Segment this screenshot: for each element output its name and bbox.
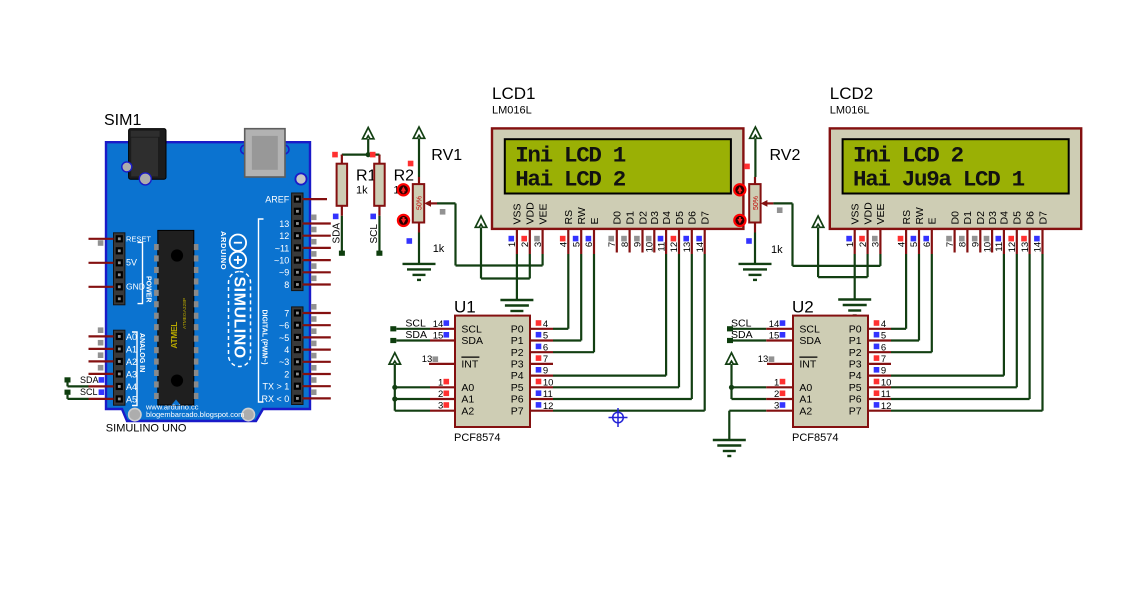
svg-text:P4: P4 xyxy=(849,370,862,382)
U2 wire P1 to LCD pin 5 xyxy=(891,339,919,341)
svg-text:D3: D3 xyxy=(987,211,999,225)
U2 P7 pin stub xyxy=(868,410,891,412)
svg-text:P6: P6 xyxy=(511,394,524,406)
pin stub A4 xyxy=(89,385,114,387)
svg-text:RS: RS xyxy=(901,210,913,225)
terminal SCL xyxy=(65,390,71,395)
svg-text:4: 4 xyxy=(896,242,907,247)
U1 pin 4 square xyxy=(536,320,542,326)
digital header upper (AREF,13-8) xyxy=(292,193,303,291)
svg-text:RV2: RV2 xyxy=(770,147,801,164)
potentiometer RV2 xyxy=(754,177,756,184)
svg-text:VDD: VDD xyxy=(525,202,537,225)
wire LCD2 VSS to ground xyxy=(854,254,856,300)
svg-text:LM016L: LM016L xyxy=(492,105,532,117)
svg-text:P0: P0 xyxy=(511,323,524,335)
U1 P6 pin stub xyxy=(530,398,553,400)
U2 P4 pin stub xyxy=(868,375,891,377)
state square RV1 top xyxy=(408,161,414,167)
state square A4 xyxy=(99,377,105,383)
svg-text:U2: U2 xyxy=(792,298,814,317)
arduino right pin state squares xyxy=(311,215,317,221)
U1 wire P0 to LCD pin 4 xyxy=(553,328,568,330)
svg-text:13: 13 xyxy=(279,219,289,229)
svg-text:P6: P6 xyxy=(849,394,862,406)
U1 wire P7 to LCD pin 14 xyxy=(553,410,705,412)
svg-text:10: 10 xyxy=(881,377,892,388)
svg-text:5: 5 xyxy=(909,242,920,247)
svg-text:P5: P5 xyxy=(849,382,862,394)
svg-text:14: 14 xyxy=(695,242,706,253)
U2 wire P6 to LCD pin 13 xyxy=(891,398,1030,400)
LCD1 pin state squares xyxy=(509,236,515,242)
svg-text:14: 14 xyxy=(769,319,780,330)
LCD1 screen xyxy=(505,139,731,193)
svg-text:A1: A1 xyxy=(799,394,812,406)
svg-text:E: E xyxy=(589,217,601,224)
U1 A0 wire xyxy=(395,386,430,388)
svg-text:P0: P0 xyxy=(849,323,862,335)
U1 wire P5 to LCD pin 12 xyxy=(553,386,679,388)
U2 A0 wire xyxy=(732,386,767,388)
svg-text:4: 4 xyxy=(559,242,570,247)
svg-text:8: 8 xyxy=(958,242,969,247)
U2 INT stub xyxy=(767,363,793,365)
svg-text:P3: P3 xyxy=(849,359,862,371)
vcc power arrow LCD2 VDD xyxy=(812,216,823,227)
svg-text:12: 12 xyxy=(543,401,554,412)
wire LCD1 VSS to ground xyxy=(516,254,518,300)
svg-text:1k: 1k xyxy=(771,244,783,256)
svg-text:2: 2 xyxy=(520,242,531,247)
svg-text:13: 13 xyxy=(422,354,433,365)
ground RV1 xyxy=(403,264,436,280)
U1 P2 pin stub xyxy=(530,351,553,353)
svg-text:D2: D2 xyxy=(637,211,649,225)
vcc power arrow RV1 xyxy=(413,127,424,138)
svg-text:6: 6 xyxy=(881,342,886,353)
LCD LCD2 LM016L body xyxy=(830,128,1081,229)
analog header (A0-A5) xyxy=(114,330,125,405)
svg-text:SDA: SDA xyxy=(405,329,427,341)
svg-text:3: 3 xyxy=(871,242,882,247)
reset pin state square xyxy=(98,240,104,246)
vcc power arrow RV2 xyxy=(750,127,761,138)
svg-text:RW: RW xyxy=(576,207,588,224)
state square R1 top xyxy=(332,152,338,158)
svg-text:A0: A0 xyxy=(461,382,474,394)
svg-text:VSS: VSS xyxy=(512,203,524,224)
svg-text:LCD2: LCD2 xyxy=(830,84,873,103)
U1 pin 2 square xyxy=(444,391,450,397)
svg-text:D6: D6 xyxy=(687,211,699,225)
svg-text:RV1: RV1 xyxy=(431,147,462,164)
svg-text:D4: D4 xyxy=(999,211,1011,225)
svg-text:7: 7 xyxy=(881,354,886,365)
svg-text:A2: A2 xyxy=(461,405,474,417)
svg-text:15: 15 xyxy=(769,331,780,342)
U2 wire P0 to LCD pin 4 xyxy=(891,328,906,330)
svg-text:SDA: SDA xyxy=(461,335,483,347)
svg-text:10: 10 xyxy=(645,242,656,253)
U2 SCL terminal and wire xyxy=(727,326,733,331)
U1 SDA terminal and wire xyxy=(390,338,396,343)
svg-text:1: 1 xyxy=(507,242,518,247)
svg-text:D6: D6 xyxy=(1024,211,1036,225)
svg-text:VEE: VEE xyxy=(537,203,549,224)
svg-text:AREF: AREF xyxy=(265,195,290,205)
U2 pin 6 square xyxy=(874,344,880,350)
svg-text:5: 5 xyxy=(543,331,548,342)
svg-text:RS: RS xyxy=(563,210,575,225)
svg-text:PCF8574: PCF8574 xyxy=(454,432,500,444)
terminal SDA xyxy=(65,377,71,382)
svg-text:A2: A2 xyxy=(799,405,812,417)
U2 pin 9 square xyxy=(874,367,880,373)
svg-text:RX < 0: RX < 0 xyxy=(262,394,290,404)
U2 pin 5 square xyxy=(874,332,880,338)
U1 junction A0 xyxy=(392,385,397,390)
svg-text:7: 7 xyxy=(543,354,548,365)
svg-text:6: 6 xyxy=(584,242,595,247)
svg-text:LCD1: LCD1 xyxy=(492,84,535,103)
wire R2 top to vcc xyxy=(368,154,379,156)
svg-text:Ini LCD 2: Ini LCD 2 xyxy=(853,142,964,168)
svg-text:INT: INT xyxy=(799,359,817,371)
svg-text:3: 3 xyxy=(533,242,544,247)
svg-text:D3: D3 xyxy=(649,211,661,225)
svg-text:A2: A2 xyxy=(126,357,137,367)
svg-text:SCL: SCL xyxy=(80,387,98,397)
pcf8574 U1 body xyxy=(455,316,530,427)
svg-text:Hai LCD 2: Hai LCD 2 xyxy=(515,166,626,192)
U1 wire P2 to LCD pin 6 xyxy=(553,351,594,353)
svg-text:VEE: VEE xyxy=(875,203,887,224)
U2 P3 pin stub xyxy=(868,363,891,365)
svg-text:SDA: SDA xyxy=(799,335,821,347)
state square RV2 wiper xyxy=(777,207,783,213)
vcc power arrow LCD1 VDD xyxy=(475,216,486,227)
U2 pin 3 square xyxy=(780,402,786,408)
svg-text:7: 7 xyxy=(945,242,956,247)
U2 pin 12 square xyxy=(874,402,880,408)
svg-text:ANALOG IN: ANALOG IN xyxy=(138,333,145,372)
state square R1 bottom xyxy=(333,214,339,220)
svg-text:11: 11 xyxy=(994,242,1005,252)
state square R2 bottom xyxy=(370,214,376,220)
svg-text:E: E xyxy=(927,217,939,224)
U1 pin 11 square xyxy=(536,390,542,396)
analog-in bracket xyxy=(132,332,137,406)
screw bottom-left xyxy=(129,408,141,420)
wire R2 bottom to terminal xyxy=(378,216,380,252)
ground LCD2 VSS xyxy=(838,300,871,316)
digital bracket xyxy=(259,219,264,402)
svg-text:SCL: SCL xyxy=(405,317,426,329)
resistor R2 xyxy=(378,155,380,165)
svg-text:~9: ~9 xyxy=(279,268,289,278)
svg-text:9: 9 xyxy=(633,242,644,247)
svg-text:SIM1: SIM1 xyxy=(104,112,141,129)
digital header lower (7-0) xyxy=(292,307,303,405)
U1 wire P4 to LCD pin 11 xyxy=(553,375,666,377)
U1 P5 pin stub xyxy=(530,386,553,388)
svg-text:12: 12 xyxy=(279,231,289,241)
svg-text:D1: D1 xyxy=(962,211,974,225)
arduino logo xyxy=(230,235,246,269)
U1 pin 14 square xyxy=(444,320,450,326)
svg-text:5: 5 xyxy=(881,331,886,342)
svg-text:R2: R2 xyxy=(394,167,415,184)
svg-text:11: 11 xyxy=(881,389,891,400)
svg-text:2: 2 xyxy=(438,389,443,400)
svg-text:D5: D5 xyxy=(1012,211,1024,225)
svg-text:SDA: SDA xyxy=(80,375,99,385)
wire R1 bottom to terminal xyxy=(341,216,343,252)
wire SCL from A5 to terminal xyxy=(66,395,68,399)
svg-text:11: 11 xyxy=(543,389,553,400)
U1 INT stub xyxy=(429,363,455,365)
rv2 up button xyxy=(734,184,745,195)
LCD2 screen xyxy=(843,139,1069,193)
U2 pin 1 square xyxy=(780,379,786,385)
resistor R1 xyxy=(341,155,343,165)
U2 wire P5 to LCD pin 12 xyxy=(891,386,1017,388)
svg-text:~6: ~6 xyxy=(279,321,289,331)
svg-text:P7: P7 xyxy=(849,405,862,417)
svg-text:8: 8 xyxy=(620,242,631,247)
svg-text:13: 13 xyxy=(758,354,769,365)
state square A5 xyxy=(99,389,105,395)
U2 P1 pin stub xyxy=(868,339,891,341)
svg-text:15: 15 xyxy=(433,331,444,342)
svg-text:9: 9 xyxy=(971,242,982,247)
U1 pin 12 square xyxy=(536,402,542,408)
U1 junction A1 xyxy=(392,396,397,401)
svg-text:D1: D1 xyxy=(624,211,636,225)
svg-text:13: 13 xyxy=(682,242,693,253)
U2 wire P7 to LCD pin 14 xyxy=(891,410,1043,412)
svg-text:~11: ~11 xyxy=(275,243,290,253)
svg-text:4: 4 xyxy=(543,319,548,330)
usb connector xyxy=(241,145,250,154)
svg-text:6: 6 xyxy=(922,242,933,247)
svg-text:PCF8574: PCF8574 xyxy=(792,432,838,444)
wire SDA from A4 to terminal xyxy=(66,382,68,386)
U1 vcc arrow A0 A1 A2 xyxy=(389,353,400,364)
svg-text:~5: ~5 xyxy=(279,333,289,343)
svg-text:D5: D5 xyxy=(674,211,686,225)
terminal SCL at R2 xyxy=(376,251,382,256)
wire RV2 bottom to ground xyxy=(754,233,756,264)
analog pin state squares A0-A3 xyxy=(98,327,104,333)
svg-text:SDA: SDA xyxy=(331,223,342,244)
U2 P6 pin stub xyxy=(868,398,891,400)
U2 pin 10 square xyxy=(874,379,880,385)
svg-text:D2: D2 xyxy=(975,211,987,225)
svg-text:12: 12 xyxy=(881,401,892,412)
arduino board SIM1 (SIMULINO UNO) xyxy=(106,142,310,421)
svg-text:A0: A0 xyxy=(799,382,812,394)
terminal SDA at R1 xyxy=(339,251,345,256)
svg-text:P1: P1 xyxy=(849,335,862,347)
U2 A2 wire to ground xyxy=(729,410,766,412)
U2 pin 14 square xyxy=(780,320,786,326)
power bracket xyxy=(138,242,143,303)
state square RV2 bottom xyxy=(746,238,752,244)
svg-text:2: 2 xyxy=(774,389,779,400)
svg-text:10: 10 xyxy=(982,242,993,253)
svg-text:VSS: VSS xyxy=(850,203,862,224)
svg-text:~3: ~3 xyxy=(279,357,289,367)
LCD LCD1 LM016L body xyxy=(492,128,743,229)
svg-text:1: 1 xyxy=(845,242,856,247)
power header (RESET 5V GND) xyxy=(114,233,125,305)
svg-text:SIMULINO: SIMULINO xyxy=(230,277,247,359)
potentiometer RV1 xyxy=(418,177,420,184)
svg-text:POWER: POWER xyxy=(145,276,152,302)
wire LCD2 VDD xyxy=(818,276,868,278)
arduino right pin stubs xyxy=(303,199,331,398)
pin stub A5 xyxy=(89,398,114,400)
U1 SCL terminal and wire xyxy=(390,326,396,331)
U1 P7 pin stub xyxy=(530,410,553,412)
U2 wire P2 to LCD pin 6 xyxy=(891,351,932,353)
svg-text:A1: A1 xyxy=(126,344,137,354)
U1 pin 1 square xyxy=(444,379,450,385)
svg-text:VDD: VDD xyxy=(862,202,874,225)
svg-text:ATMEGA328P: ATMEGA328P xyxy=(182,298,188,329)
U2 pin 7 square xyxy=(874,355,880,361)
simulino text xyxy=(229,272,251,367)
svg-text:14: 14 xyxy=(433,319,444,330)
origin marker crosshair xyxy=(609,408,628,427)
svg-text:7: 7 xyxy=(607,242,618,247)
svg-text:50%: 50% xyxy=(416,196,423,210)
wire RV1 bottom to ground xyxy=(418,233,420,264)
svg-text:D7: D7 xyxy=(700,211,712,225)
svg-text:SCL: SCL xyxy=(369,224,380,244)
svg-text:10: 10 xyxy=(543,377,554,388)
svg-text:SCL: SCL xyxy=(461,323,482,335)
svg-text:A4: A4 xyxy=(126,382,137,392)
U2 wire P4 to LCD pin 11 xyxy=(891,375,1004,377)
svg-text:2: 2 xyxy=(858,242,869,247)
svg-text:3: 3 xyxy=(438,401,443,412)
atmega328 chip xyxy=(158,230,194,405)
svg-text:1k: 1k xyxy=(433,243,445,255)
power jack J1 xyxy=(129,129,166,180)
svg-text:DIGITAL (PWM~): DIGITAL (PWM~) xyxy=(260,310,267,365)
svg-text:5V: 5V xyxy=(126,257,137,267)
svg-text:SIMULINO UNO: SIMULINO UNO xyxy=(106,423,187,435)
svg-text:SCL: SCL xyxy=(799,323,820,335)
svg-text:P2: P2 xyxy=(511,347,524,359)
U1 A2 wire xyxy=(395,410,430,412)
state square RV2 top xyxy=(744,164,750,170)
U1 pin 15 square xyxy=(444,332,450,338)
U1 wire P6 to LCD pin 13 xyxy=(553,398,692,400)
svg-text:P1: P1 xyxy=(511,335,524,347)
U1 P0 pin stub xyxy=(530,328,553,330)
svg-text:12: 12 xyxy=(1007,242,1018,253)
svg-text:A0: A0 xyxy=(126,332,137,342)
svg-text:D4: D4 xyxy=(661,211,673,225)
svg-text:6: 6 xyxy=(543,342,548,353)
U1 P4 pin stub xyxy=(530,375,553,377)
svg-text:ARDUINO: ARDUINO xyxy=(219,231,228,270)
ground RV2 xyxy=(739,264,772,280)
atmega328 pins xyxy=(154,244,198,399)
mounting hole top-right xyxy=(295,173,306,184)
LCD2 pin state squares xyxy=(846,236,852,242)
svg-text:7: 7 xyxy=(284,308,289,318)
svg-text:9: 9 xyxy=(881,366,886,377)
U2 pin 15 square xyxy=(780,332,786,338)
U2 pin 2 square xyxy=(780,391,786,397)
U2 P5 pin stub xyxy=(868,386,891,388)
state square RV1 bottom xyxy=(407,238,413,244)
U1 pin 5 square xyxy=(536,332,542,338)
svg-text:3: 3 xyxy=(774,401,779,412)
wire RV2 wiper to LCD2 VEE xyxy=(773,202,792,204)
svg-text:8: 8 xyxy=(284,280,289,290)
U2 SDA terminal and wire xyxy=(727,338,733,343)
U1 pin 9 square xyxy=(536,367,542,373)
svg-text:ATMEL: ATMEL xyxy=(169,322,179,349)
U2 pin 11 square xyxy=(874,390,880,396)
U1 pin 13 square xyxy=(433,356,439,362)
U2 vcc arrow A0 A1 xyxy=(726,353,737,364)
svg-text:RW: RW xyxy=(914,207,926,224)
pcf8574 U2 body xyxy=(793,316,868,427)
svg-text:12: 12 xyxy=(669,242,680,253)
junction vcc R1 R2 xyxy=(366,152,371,157)
U2 pin 13 square xyxy=(769,356,775,362)
svg-text:SCL: SCL xyxy=(731,317,752,329)
state square RV1 wiper xyxy=(440,209,446,215)
vcc power arrow for R1 R2 xyxy=(363,128,374,139)
svg-text:P4: P4 xyxy=(511,370,524,382)
svg-text:LM016L: LM016L xyxy=(830,105,870,117)
svg-text:4: 4 xyxy=(284,345,289,355)
wire RV1 wiper to LCD1 VEE xyxy=(437,202,456,204)
U2 junction A0 xyxy=(729,385,734,390)
wire LCD1 VDD xyxy=(481,277,530,279)
U1 pin 6 square xyxy=(536,344,542,350)
rv1 up button xyxy=(398,184,409,195)
state square R2 top xyxy=(370,152,376,158)
U2 P0 pin stub xyxy=(868,328,891,330)
svg-text:TX > 1: TX > 1 xyxy=(263,382,290,392)
arduino left pin stubs RESET 5V GND xyxy=(89,239,114,287)
rv1 down button xyxy=(398,215,409,226)
arduino analog pin stubs A0-A3 xyxy=(89,336,114,374)
U1 pin 7 square xyxy=(536,355,542,361)
svg-text:1: 1 xyxy=(438,377,443,388)
svg-text:P2: P2 xyxy=(849,347,862,359)
svg-text:2: 2 xyxy=(284,369,289,379)
LCD2 pin stubs xyxy=(855,229,1043,254)
svg-text:4: 4 xyxy=(881,319,886,330)
svg-text:1k: 1k xyxy=(356,185,368,197)
svg-text:A1: A1 xyxy=(461,394,474,406)
svg-text:A3: A3 xyxy=(126,369,137,379)
svg-text:9: 9 xyxy=(543,366,548,377)
svg-text:14: 14 xyxy=(1033,242,1044,253)
svg-text:blogembarcado.blogspot.com: blogembarcado.blogspot.com xyxy=(146,410,244,419)
svg-text:Hai Ju9a LCD 1: Hai Ju9a LCD 1 xyxy=(853,166,1025,192)
